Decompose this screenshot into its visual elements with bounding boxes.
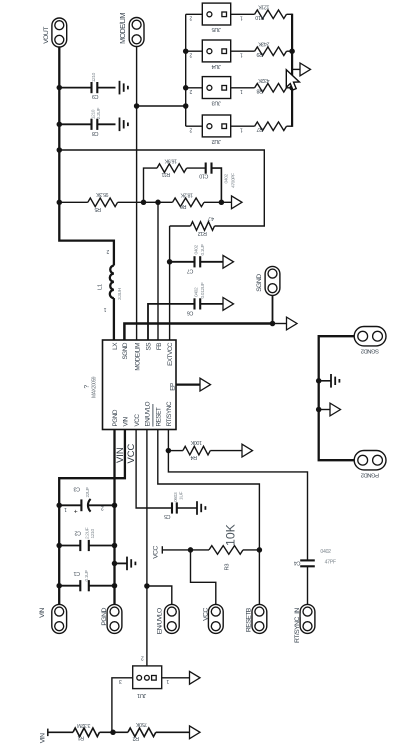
svg-text:RESET: RESET [156,407,163,426]
wire PGND gnd stub [115,562,128,564]
junction PGND/gnd stub [112,561,118,567]
svg-text:4.7: 4.7 [207,215,214,221]
ground at resistor bus [300,63,311,76]
junction PGND/C3 [112,503,118,509]
svg-text:C2: C2 [75,530,81,536]
svg-text:C6: C6 [187,309,193,315]
node RESETB (test pad) [245,604,266,633]
resistor R10 [231,4,292,20]
resistor R2 [113,721,190,741]
svg-text:R1: R1 [78,734,84,740]
svg-text:C8: C8 [92,130,98,136]
svg-text:PGND2: PGND2 [361,472,379,478]
junction gnd bus R9 [289,48,295,54]
svg-text:1210: 1210 [90,529,96,539]
svg-text:243K: 243K [258,40,270,46]
node SGND2 (test pad) [354,327,386,354]
svg-text:JU4: JU4 [211,63,221,69]
svg-text:RT/SYNC_IN: RT/SYNC_IN [294,608,301,643]
svg-text:95.3K: 95.3K [96,191,109,197]
ground at C5 [197,501,205,515]
wire RESETB pad drop [258,550,260,605]
svg-text:JU3: JU3 [212,100,221,106]
node PGND (test pad) [101,604,122,633]
jumper JU5 [186,3,243,32]
wire gnd stub R6 [221,201,231,203]
capacitor C4 [294,549,336,567]
ground at R2 [190,726,201,739]
junction VCC/R3 [188,547,194,553]
wire JU1 pin1 gnd [162,677,190,679]
resistor R11 [144,157,206,202]
svg-text:RESETB: RESETB [245,607,252,632]
svg-text:1210: 1210 [91,109,97,119]
node EN/UVLO (test pad) [157,604,180,634]
svg-text:R8: R8 [257,87,263,93]
wire EP stub [176,383,200,385]
mouse cursor [286,70,299,90]
capacitor C7 [170,244,223,274]
svg-text:18.2K: 18.2K [180,192,193,198]
svg-text:VIN: VIN [123,416,130,426]
ground at C9 [120,81,128,95]
junction RT/SYNC/R4 [166,448,172,454]
svg-text:VOUT: VOUT [43,27,50,44]
svg-text:3.3UH: 3.3UH [117,287,123,300]
junction EXTVCC/C7 [167,259,173,265]
junction VOUT/C9 [57,85,63,91]
svg-text:R10: R10 [255,14,264,20]
svg-text:R2: R2 [133,735,139,741]
junction R6/C10 gnd [219,200,225,206]
ground at JU1 [190,671,201,684]
svg-text:R3: R3 [225,564,231,571]
junction SGND trunk [270,321,276,327]
wire SS to C6 [148,304,195,340]
svg-text:C5: C5 [164,513,170,519]
svg-text:R9: R9 [257,51,263,57]
svg-text:VIN: VIN [39,608,46,618]
wire RESET path [158,430,260,550]
svg-text:C3: C3 [74,485,80,491]
svg-text:R5: R5 [95,206,101,212]
svg-text:+: + [74,508,78,515]
node VCC net label [153,545,163,558]
wire MODE/LIM vertical [136,46,138,340]
capacitor C3 [59,485,114,515]
resistor R5 [59,191,143,212]
junction VIN/C2 [56,543,62,549]
svg-text:0402: 0402 [320,549,331,555]
node VIN (test pad) [39,604,67,633]
junction PGND/C1 [112,583,118,589]
svg-text:4700PF: 4700PF [231,173,237,188]
ground at C7 [223,255,234,268]
wire jumper bus [185,14,187,126]
svg-text:JU5: JU5 [212,26,221,32]
resistor R7 [231,122,292,132]
junction FB divider B [155,200,161,206]
svg-text:0.012UF: 0.012UF [200,282,206,298]
wire VOUT to R12 [59,150,264,226]
wire VIN to R1 [48,731,73,733]
wire L1 to LX [113,298,115,340]
wire FB vertical [157,202,159,340]
svg-text:R12: R12 [198,230,207,236]
svg-text:750K: 750K [136,721,148,727]
svg-text:JU1: JU1 [137,692,146,698]
capacitor C5 [164,492,197,519]
ground at EP [200,378,211,391]
wire SGND2 gnd stub [319,380,331,382]
junction EN/UVLO branch [144,583,150,589]
svg-text:VCC: VCC [134,414,141,427]
wire C4 to RT/SYNC_IN pad [307,566,309,604]
junction VOUT/R5 [57,200,63,206]
junction VIN/C1 [56,583,62,589]
wire EN/UVLO to JU1 [146,586,148,666]
svg-text:47PF: 47PF [325,559,336,565]
svg-text:EN/UVLO: EN/UVLO [145,401,152,426]
svg-text:EXTVCC: EXTVCC [167,342,174,366]
junction R3/RESETB line [257,547,263,553]
wire VCC net row [162,549,190,551]
junction VOUT/C8 [57,122,63,128]
svg-text:C4: C4 [294,559,300,565]
node RT/SYNC_IN (test pad) [294,604,315,643]
svg-text:0.1UF: 0.1UF [200,244,206,256]
resistor R1 [73,722,113,740]
ground at R4 [242,444,253,457]
svg-text:1210: 1210 [91,72,97,82]
wire VOUT bus to L1 [59,202,114,265]
svg-text:0603: 0603 [173,492,179,502]
node VIN bottom label [39,729,48,744]
wire FB node A-B [144,201,159,203]
wire SGND gnd stub [273,323,287,325]
svg-text:SGND: SGND [122,342,129,359]
resistor R8 [231,77,292,93]
ground at C8 [120,118,128,132]
capacitor C9 [59,72,115,99]
junction VOUT/EXTVCC feed [57,147,63,153]
svg-text:C7: C7 [187,267,193,273]
junction SGND2 gnd [316,378,322,384]
svg-text:C1: C1 [74,570,80,576]
ground at SGND [287,317,298,330]
inductor L1 [97,248,123,312]
resistor R12 [170,215,215,236]
svg-text:C10: C10 [199,172,208,178]
wire JU1 pin3 to divider [112,678,133,733]
wire PGND pin path [113,430,115,506]
resistor R9 [231,40,292,56]
wire PGND bus C2-gnd [113,546,115,564]
svg-text:0402: 0402 [194,287,200,297]
svg-text:121K: 121K [258,4,270,10]
resistor R6 [158,192,221,210]
wire VOUT bus C8-EXTVCC tap [58,124,60,150]
svg-text:MODE/LIM: MODE/LIM [118,13,127,44]
svg-text:VCC: VCC [153,545,160,558]
jumper JU4 [186,40,243,69]
wire MODE tap to jumper bus [137,105,186,107]
ground at C6 [223,298,234,311]
op-amp U1 MAX20059 (IC) [83,340,176,430]
node VOUT (test pad) [43,18,67,47]
junction MODE/jumper-bus tap [134,103,140,109]
wire SGND pad stem [272,296,274,324]
wire SGND2 trunk [319,336,355,460]
svg-text:100K: 100K [190,439,202,445]
svg-text:FB: FB [156,343,163,350]
capacitor C6 [187,282,223,315]
svg-text:MAX20059: MAX20059 [92,376,98,398]
wire VIN bus C3-C2 [58,505,60,545]
wire VOUT pad stem [58,47,60,88]
junction jumper bus JU3 [183,85,189,91]
ground at PGND bus [127,557,135,571]
wire VOUT bus to R5 tap [58,150,60,202]
capacitor C8 [59,107,115,135]
svg-text:10K: 10K [224,523,238,546]
wire gnd bus stub [292,68,300,70]
svg-text:RT/SYNC: RT/SYNC [166,401,173,426]
svg-text:1UF: 1UF [179,492,185,500]
wire EN/UVLO to pad [147,586,172,605]
wire VIN pin path [59,430,125,506]
ground at R6/C10 [232,196,243,209]
svg-text:0.1UF: 0.1UF [84,570,90,582]
wire VCC pin to C5 [136,430,172,509]
ground classic at island [331,374,339,388]
jumper JU2 [186,115,243,144]
node MODE/LIM (test pad) [118,13,144,47]
node PGND2 (test pad) [354,451,386,478]
svg-text:3.32M: 3.32M [77,722,91,728]
svg-text:SS: SS [146,343,153,351]
wire RT/SYNC stub [167,430,169,451]
wire VOUT bus C9-C8 [58,88,60,125]
wire EN/UVLO vertical [146,430,148,587]
wire VIN pad stem [58,586,60,605]
svg-text:SGND: SGND [256,274,263,292]
junction jumper bus JU4 [183,48,189,54]
svg-text:SGND2: SGND2 [361,348,379,354]
svg-text:L1: L1 [97,284,103,290]
svg-text:VIN: VIN [39,733,46,743]
wire resistor ground bus [291,14,293,127]
node SGND (test pad) [256,266,280,295]
svg-text:22UF: 22UF [85,487,91,498]
wire VIN bus C2-C1 [58,546,60,586]
wire PGND bus gnd-C1 [113,563,115,585]
svg-text:VCC: VCC [203,608,210,621]
node VCC (test pad) [203,604,224,633]
junction PGND2 gnd [316,407,322,413]
junction R1/R2/JU1 [110,730,116,736]
resistor R4 [168,439,242,460]
svg-text:R6: R6 [180,203,186,209]
capacitor C10 [199,163,236,203]
svg-text:JU2: JU2 [212,138,221,144]
capacitor C1 [59,570,114,592]
svg-text:MODE/LIM: MODE/LIM [135,343,142,371]
svg-text:PGND: PGND [112,409,119,426]
svg-text:R4: R4 [191,454,197,460]
junction gnd bus R8 [289,85,295,91]
junction PGND/C2 [112,543,118,549]
wire PGND bus C3-C2 [113,505,115,545]
wire RT/SYNC to C4 [168,451,307,561]
wire PGND2 gnd stub [319,409,330,411]
wire R12 to EXTVCC [169,226,171,340]
wire PGND pad stem [113,586,115,605]
svg-text:C9: C9 [92,93,98,99]
svg-text:16.9K: 16.9K [164,157,177,163]
wire VCC pad drop [191,550,216,605]
svg-text:0402: 0402 [194,245,200,255]
wire SGND trunk [124,324,272,341]
svg-text:EP: EP [170,383,177,391]
svg-text:432K: 432K [258,77,270,83]
junction FB divider A [141,200,147,206]
svg-text:R7: R7 [257,126,263,132]
svg-text:2.2UF: 2.2UF [84,527,90,539]
ground triangle at island [330,403,341,416]
svg-text:2.2UF: 2.2UF [96,107,102,119]
junction VIN/C3 [56,503,62,509]
junction jumper bus at tap [183,103,189,109]
svg-text:0402: 0402 [224,174,230,184]
svg-text:PGND: PGND [101,608,108,626]
svg-text:R11: R11 [161,171,170,177]
jumper JU1 [119,655,170,698]
jumper JU3 [186,77,243,106]
svg-text:EN/UVLO: EN/UVLO [157,608,164,634]
resistor R3 [191,523,260,570]
capacitor C2 [59,527,114,551]
svg-text:VCC: VCC [125,443,136,463]
